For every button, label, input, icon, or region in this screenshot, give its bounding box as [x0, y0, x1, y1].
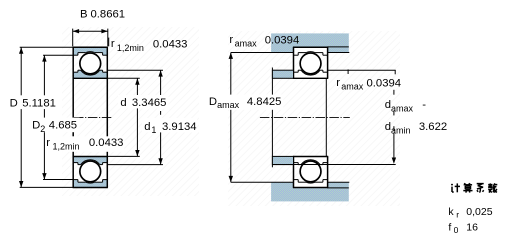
svg-text:0.0394: 0.0394	[367, 77, 402, 89]
svg-text:0: 0	[454, 225, 459, 235]
svg-text:D: D	[209, 96, 217, 108]
svg-text:r: r	[46, 137, 50, 149]
svg-text:0.0394: 0.0394	[265, 35, 300, 47]
svg-text:d: d	[144, 121, 150, 133]
svg-text:f: f	[448, 222, 451, 234]
svg-text:0.8661: 0.8661	[91, 8, 126, 20]
svg-text:3.622: 3.622	[419, 121, 447, 133]
svg-text:3.9134: 3.9134	[162, 121, 197, 133]
svg-text:0.0433: 0.0433	[89, 137, 124, 149]
svg-text:5.1181: 5.1181	[22, 97, 56, 109]
svg-text:D: D	[32, 120, 40, 132]
svg-text:0.0433: 0.0433	[153, 39, 188, 51]
svg-text:r: r	[111, 38, 115, 50]
svg-text:4.685: 4.685	[49, 120, 77, 132]
svg-text:r: r	[336, 77, 340, 89]
svg-text:1,2min: 1,2min	[117, 43, 144, 53]
svg-text:-: -	[422, 99, 426, 111]
svg-text:k: k	[448, 206, 454, 218]
svg-text:1,2min: 1,2min	[53, 142, 80, 152]
svg-text:r: r	[456, 210, 459, 220]
svg-text:r: r	[229, 34, 233, 46]
svg-text:D: D	[10, 97, 18, 109]
svg-text:d: d	[120, 97, 126, 109]
svg-text:amin: amin	[391, 125, 411, 135]
svg-text:3.3465: 3.3465	[132, 97, 167, 109]
svg-text:4.8425: 4.8425	[247, 96, 282, 108]
svg-text:2: 2	[40, 124, 45, 134]
svg-text:0,025: 0,025	[466, 206, 492, 218]
svg-text:B: B	[80, 8, 88, 20]
svg-text:16: 16	[466, 222, 478, 234]
svg-text:amax: amax	[217, 100, 240, 110]
svg-text:amax: amax	[235, 39, 258, 49]
svg-text:1: 1	[151, 125, 156, 135]
svg-text:amax: amax	[391, 103, 414, 113]
svg-text:amax: amax	[341, 81, 364, 91]
